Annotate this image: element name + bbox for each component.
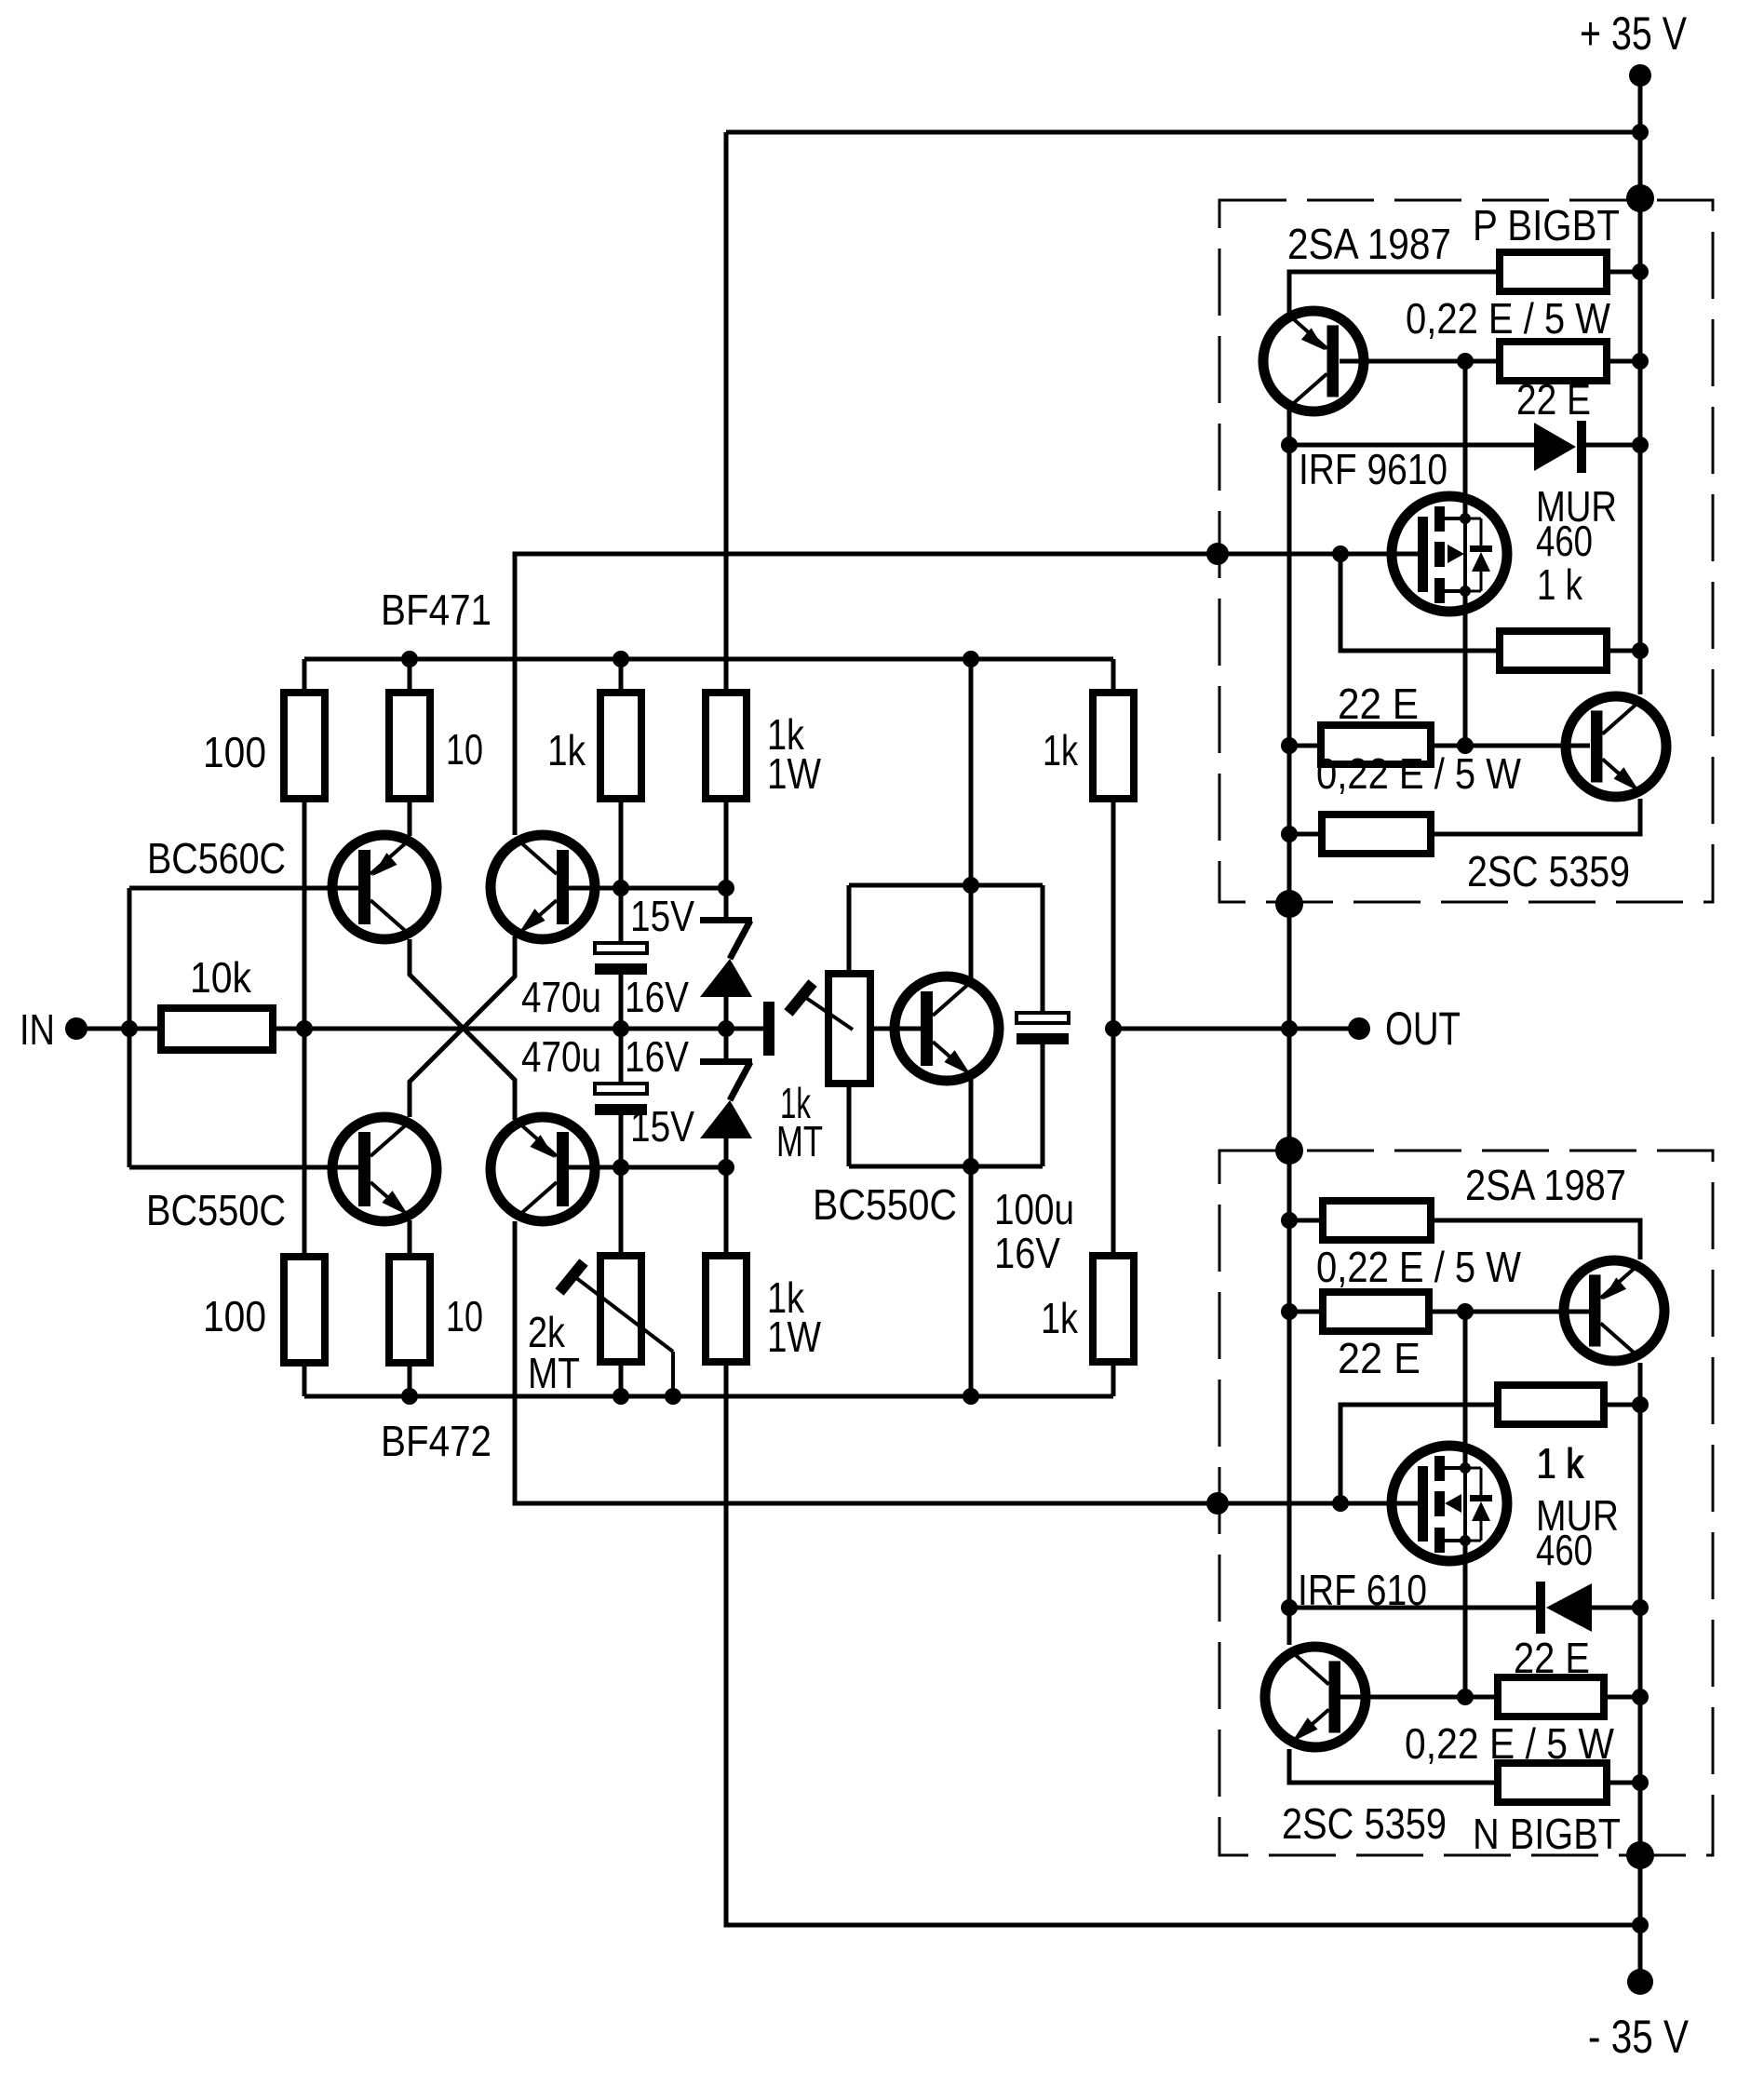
diode MUR 460 (N) (1536, 1582, 1545, 1634)
junction rail/diode-P (1632, 437, 1649, 453)
trimmer R 1k MT (828, 974, 870, 1084)
node -35V supply terminal (1627, 1969, 1653, 1995)
wire Vbe box left lower (847, 1084, 852, 1166)
svg-text:16V: 16V (994, 1229, 1060, 1277)
wire trimmer base link (870, 1027, 921, 1031)
junction base-row/zener-top (718, 880, 734, 896)
wire Q3 collector to Q2 emitter (X diagonal) (410, 936, 515, 1117)
node gate wire crosses P-box border (1206, 543, 1229, 565)
svg-text:IN: IN (20, 1005, 55, 1054)
transistor BC560C Q1 (332, 835, 437, 939)
junction driver-column/0.22E-P (1281, 826, 1298, 842)
junction base-row2/2k (613, 1159, 629, 1176)
wire Vbe collector lead (969, 885, 974, 983)
svg-text:2SC 5359: 2SC 5359 (1467, 847, 1630, 895)
wire bottom rail (304, 1394, 1113, 1399)
junction rail/R-P-top (1632, 263, 1649, 280)
junction top-rail/R10 (401, 651, 418, 667)
wire 2SC5359-N base (1340, 1695, 1498, 1700)
junction driver-column/22E-N (1281, 1303, 1298, 1320)
dashed box P BIGBT (1219, 200, 1713, 902)
resistor R 10k (161, 1008, 273, 1050)
wire top feedback horizontal (726, 130, 1640, 135)
junction IN/base-column (121, 1020, 138, 1037)
wire 2SA1987-P base (1340, 359, 1500, 364)
wire 0.22E-N-top left lead (1289, 1219, 1323, 1223)
wire mosfet-N source down (1463, 1537, 1468, 1697)
wire cap1 to mid (619, 975, 624, 1084)
junction top-rail/Vbe-column (963, 651, 979, 667)
wire Vbe box left upper (847, 885, 852, 974)
junction driver-column/diode-row (1281, 437, 1298, 453)
wire zener1 to zener2 (724, 997, 729, 1058)
wire Q2 collector to P-gate (515, 554, 1419, 835)
resistor R 0.22E/5W (P low) (1322, 815, 1431, 854)
junction rail/top-feedback (1632, 124, 1649, 141)
wire R1k-P to rail (1607, 649, 1640, 653)
wire 10k to mid node (273, 1027, 304, 1031)
wire Vbe column bottom (969, 1166, 974, 1396)
wire 10-ohm upper lead (408, 659, 412, 693)
svg-text:BC560C: BC560C (147, 834, 286, 882)
wire 0.22E-P-low left lead (1289, 832, 1322, 837)
wire 10-ohm lower lead (408, 1363, 412, 1396)
svg-text:- 35 V: - 35 V (1588, 2011, 1690, 2063)
wire Q4 base row (569, 1165, 726, 1170)
transistor BF472 Q4 (491, 1117, 595, 1221)
junction mid/470u (613, 1020, 629, 1037)
junction base/mosfet-source (1457, 353, 1474, 370)
node rail crosses N-box bottom border (1626, 1841, 1654, 1869)
svg-text:BC550C: BC550C (146, 1186, 286, 1234)
svg-text:1k: 1k (1041, 1294, 1079, 1342)
wire 2SA1987-N collector down (1638, 1363, 1643, 1982)
wire Vbe box right lower (1041, 1044, 1045, 1166)
junction driver-column/0.22E-N (1281, 1212, 1298, 1229)
wire 1k-right lower lead (1111, 1362, 1116, 1396)
wire base column vertical x=139 (128, 888, 132, 1167)
wire diode-N to rail (1592, 1606, 1640, 1610)
transistor BC550C Vbe multiplier (895, 976, 999, 1081)
wire gate-N to 1k (1340, 1405, 1498, 1503)
wire gate-P to 1k (1340, 554, 1500, 651)
junction rail/22E-N-low (1632, 1689, 1649, 1705)
wire 2SA1987-P emitter lead (1289, 272, 1500, 314)
wire 1k to cap (619, 799, 624, 943)
svg-text:470u: 470u (521, 1032, 601, 1081)
node rail crosses P-box top border (1626, 184, 1654, 212)
svg-text:OUT: OUT (1385, 1003, 1461, 1055)
resistor R 1k (right upper) (1093, 693, 1134, 799)
wire mosfet-N drain link (1463, 1312, 1468, 1469)
wire mosfet-P source link (1463, 361, 1468, 518)
wire 100-ohm column lower (303, 1363, 307, 1396)
wire 0.22E-N-top to emitter (1431, 1220, 1640, 1259)
wire 2SC5359-P emitter lead (1431, 799, 1640, 834)
resistor R 1k (driver load upper) (600, 693, 641, 799)
wire Q1 base (129, 886, 358, 891)
capacitor C 100u 16V (1017, 1013, 1069, 1023)
node +35V supply terminal (1629, 64, 1651, 87)
wire Vbe box bottom (849, 1165, 1043, 1169)
wire 1k1W to zener1 (724, 799, 729, 917)
wire R1k-N to rail (1604, 1403, 1640, 1407)
svg-text:22 E: 22 E (1516, 375, 1591, 424)
svg-text:16V: 16V (625, 1032, 689, 1081)
wire R-P-top to rail (1607, 270, 1640, 275)
resistor R 1k 1W (lower) (706, 1256, 747, 1362)
svg-text:470u: 470u (521, 973, 601, 1021)
wire 2SC5359-N emitter lead (1289, 1749, 1498, 1783)
zener D 15V (upper) (700, 917, 752, 923)
resistor R 1k (right lower) (1093, 1256, 1134, 1362)
junction base-N/mosfet-source (1457, 1689, 1474, 1705)
wire +35V rail vertical (top) (1638, 75, 1643, 694)
transistor BC550C Q3 (332, 1117, 437, 1221)
junction driver-column/diode-N (1281, 1599, 1298, 1616)
junction mid/100-column (296, 1020, 313, 1037)
wire 1k upper lead (619, 659, 624, 693)
transistor 2SC 5359 (N block) (1265, 1647, 1366, 1747)
svg-text:N BIGBT: N BIGBT (1473, 1810, 1621, 1858)
svg-text:2SA 1987: 2SA 1987 (1287, 220, 1451, 268)
junction rail/R22E-P (1632, 353, 1649, 370)
resistor R 0.22E/5W (P top) (1500, 252, 1607, 291)
resistor R 0.22E/5W (N low) (1498, 1763, 1607, 1802)
svg-text:460: 460 (1536, 517, 1593, 565)
svg-text:22 E: 22 E (1338, 1334, 1421, 1382)
svg-text:0,22 E / 5 W: 0,22 E / 5 W (1406, 294, 1610, 343)
wire Vbe box right upper (1041, 885, 1045, 1013)
wire Vbe emitter lead (969, 1074, 974, 1166)
wire OUT line (1113, 1027, 1359, 1031)
junction rail/R1k-P (1632, 642, 1649, 659)
junction Vbe-bottom/column (963, 1158, 979, 1175)
wire base row to 2k trimmer (619, 1167, 624, 1256)
transistor BF471 Q2 (491, 835, 595, 939)
svg-text:2SC 5359: 2SC 5359 (1282, 1799, 1447, 1848)
wire base row to 1k1W lower (724, 1167, 729, 1256)
svg-text:BC550C: BC550C (813, 1180, 957, 1229)
wire IN lead (76, 1027, 161, 1031)
svg-text:0,22 E / 5 W: 0,22 E / 5 W (1316, 1243, 1521, 1291)
svg-text:100u: 100u (994, 1185, 1074, 1233)
svg-text:2SA 1987: 2SA 1987 (1465, 1161, 1626, 1209)
capacitor C 470u lower (595, 1084, 647, 1094)
junction base-row/1k (613, 880, 629, 896)
svg-text:+ 35 V: + 35 V (1580, 7, 1688, 60)
wire 1k-right upper lead (1111, 659, 1116, 693)
svg-text:22 E: 22 E (1514, 1634, 1590, 1682)
svg-text:MT: MT (528, 1349, 580, 1397)
wire 1k1W-lower to -35V feedback (726, 1362, 1640, 1925)
resistor R 100 (lower) (284, 1257, 325, 1363)
svg-text:1W: 1W (767, 1313, 821, 1361)
junction bottom-rail/2k (613, 1388, 629, 1405)
node driver column crosses P-box border (1275, 890, 1303, 918)
wire 22E-N-low to rail (1604, 1695, 1640, 1700)
node OUT terminal (1348, 1017, 1370, 1040)
svg-text:22 E: 22 E (1338, 680, 1419, 728)
wire Q3 base (129, 1165, 358, 1170)
wire zener2 to base row (724, 1138, 729, 1167)
junction top-rail/R1k (613, 651, 629, 667)
resistor R 22E (N low) (1498, 1677, 1604, 1717)
transistor 2SA 1987 (P block) (1263, 311, 1364, 411)
trimmer R 2k MT (600, 1256, 641, 1362)
wire diode-P to rail (1586, 443, 1640, 448)
wire diode row P (1289, 443, 1534, 448)
svg-text:1 k: 1 k (1537, 560, 1583, 609)
resistor R 22E (P low) (1321, 725, 1431, 764)
svg-text:460: 460 (1536, 1526, 1593, 1574)
resistor R 1k (N gate) (1498, 1385, 1604, 1424)
junction 22E-P/mosfet-drain (1457, 737, 1474, 754)
svg-text:1W: 1W (767, 749, 821, 798)
resistor R 1k 1W (upper) (706, 693, 747, 799)
resistor R 22E (N top) (1323, 1292, 1429, 1331)
svg-text:15V: 15V (630, 1102, 694, 1151)
junction OUT/1k-column (1105, 1020, 1122, 1037)
wire mosfet-P drain down (1463, 591, 1468, 746)
mosfet IRF 610 (1392, 1446, 1507, 1561)
wire driver column x=1385 (1287, 407, 1292, 1645)
resistor R 10 (upper) (389, 693, 430, 799)
svg-text:10: 10 (446, 1292, 483, 1340)
resistor R 100 (upper) (284, 693, 325, 799)
junction 22E-N/mosfet-drain (1457, 1303, 1474, 1320)
junction OUT/driver-column (1281, 1020, 1298, 1037)
junction rail/0.22E-N-low (1632, 1774, 1649, 1791)
junction rail/diode-N (1632, 1599, 1649, 1616)
wire 22E-P-low to 2SC base (1431, 744, 1590, 748)
resistor R 1k (P gate) (1500, 631, 1607, 670)
transistor 2SA 1987 (N block) (1564, 1260, 1664, 1361)
junction Vbe-top/column (963, 877, 979, 894)
wire Q3 emitter to 10-ohm (408, 1220, 412, 1257)
svg-text:1k: 1k (1043, 726, 1079, 774)
wire 22E-N to 2SA base (1429, 1310, 1590, 1314)
wire mid line (304, 1027, 763, 1031)
wire 22E-N-top left lead (1289, 1310, 1323, 1314)
diode MUR 460 (P) (1534, 423, 1576, 471)
node gate wire crosses N-box border (1206, 1492, 1229, 1515)
wire 22E-P-low left lead (1289, 744, 1321, 748)
svg-text:10k: 10k (190, 953, 252, 1002)
svg-text:16V: 16V (625, 973, 689, 1021)
wire Q1 collector to Q4 emitter (X diagonal) (410, 939, 515, 1120)
wire 100-ohm column middle (303, 799, 307, 1257)
svg-text:100: 100 (203, 728, 266, 776)
svg-text:BF472: BF472 (381, 1417, 491, 1465)
svg-text:0,22 E / 5 W: 0,22 E / 5 W (1405, 1719, 1615, 1768)
svg-text:P BIGBT: P BIGBT (1473, 201, 1620, 249)
junction bottom-rail/Vbe-column (963, 1388, 979, 1405)
wire top rail (304, 657, 1113, 662)
wire 100-ohm column upper (303, 659, 307, 693)
wire R22E-P to rail (1607, 359, 1640, 364)
zener D 15V (lower) (700, 1058, 752, 1065)
junction gate/1k-P (1332, 545, 1349, 562)
resistor R 10 (lower) (389, 1257, 430, 1363)
resistor R 0.22E/5W (N top) (1323, 1201, 1431, 1240)
junction bottom-rail/2k-wiper (665, 1388, 681, 1405)
resistor R 22E (P base) (1500, 342, 1607, 381)
junction driver-column/22E-P (1281, 737, 1298, 754)
dashed box N BIGBT (1219, 1151, 1713, 1855)
node driver column crosses N-box border (1275, 1137, 1303, 1165)
wire diode row N left (1289, 1606, 1536, 1610)
svg-text:1k: 1k (547, 726, 586, 774)
wire Q2 base row (569, 886, 726, 891)
svg-text:10: 10 (446, 725, 483, 774)
svg-text:BF471: BF471 (381, 586, 491, 634)
wire 2k lower lead (619, 1362, 624, 1396)
wire Vbe column top (969, 659, 974, 885)
junction gate/1k-N (1332, 1495, 1349, 1512)
wire 1k-right to OUT (1111, 799, 1116, 1256)
svg-text:0,22 E / 5 W: 0,22 E / 5 W (1316, 749, 1521, 798)
junction mid/zener (718, 1020, 734, 1037)
junction rail/R1k-N (1632, 1396, 1649, 1413)
svg-text:MT: MT (776, 1117, 823, 1165)
mosfet IRF 9610 (1392, 496, 1507, 612)
wire 10-ohm to Q1 emitter (408, 799, 412, 836)
transistor 2SC 5359 (P block) (1566, 696, 1666, 797)
wire Q4 collector to N-gate (515, 1221, 1419, 1503)
node IN terminal (65, 1017, 88, 1040)
junction base-row2/zener-bottom (718, 1159, 734, 1176)
svg-text:100: 100 (203, 1292, 266, 1340)
wire 0.22E-N-low to rail (1607, 1781, 1640, 1785)
svg-text:IRF 9610: IRF 9610 (1299, 445, 1448, 493)
capacitor C 470u upper (595, 943, 647, 953)
wire Vbe box top (849, 883, 1043, 888)
svg-text:15V: 15V (630, 892, 694, 940)
wire left 1k1W column vertical from top (724, 132, 729, 693)
junction rail/feedback-bottom (1632, 1917, 1649, 1933)
wire cap2 to base row (619, 1115, 624, 1167)
junction bottom-rail/R10b (401, 1388, 418, 1405)
svg-text:1 k: 1 k (1538, 1439, 1583, 1488)
